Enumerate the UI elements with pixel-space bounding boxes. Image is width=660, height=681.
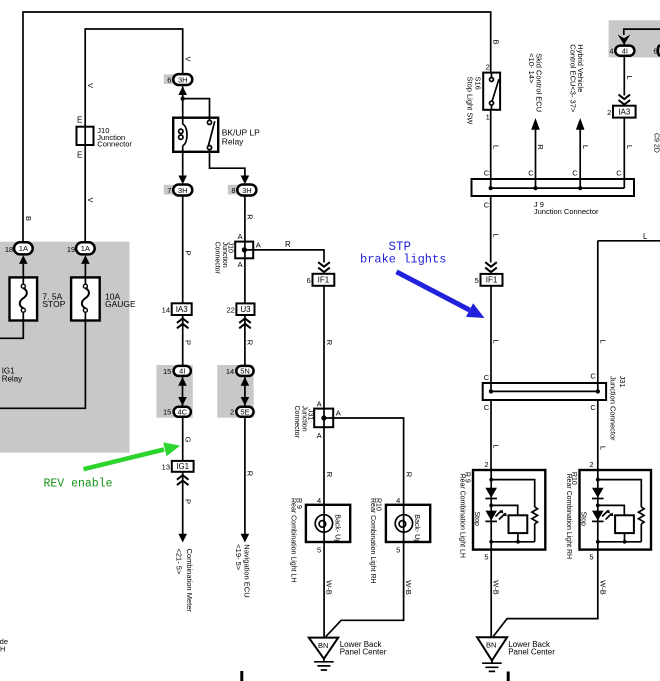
svg-text:19: 19 [67,245,75,254]
svg-text:Control ECU<3- 37>: Control ECU<3- 37> [569,44,578,113]
svg-text:GAUGE: GAUGE [105,299,136,309]
svg-text:R: R [325,472,334,478]
svg-text:R: R [246,471,255,477]
svg-text:4C: 4C [178,408,188,417]
svg-text:R: R [246,340,255,346]
svg-text:3H: 3H [178,75,188,84]
svg-text:J31: J31 [618,376,627,388]
svg-text:2: 2 [484,460,488,469]
svg-text:8: 8 [231,186,235,195]
svg-text:2: 2 [589,460,593,469]
svg-text:4: 4 [396,496,400,505]
svg-text:C: C [528,168,534,177]
svg-text:Relay: Relay [2,375,22,384]
svg-text:A: A [317,431,322,440]
svg-text:<21- 5>: <21- 5> [175,549,184,575]
svg-text:Rear Combination Light RH: Rear Combination Light RH [369,498,376,584]
svg-text:STOP: STOP [42,299,65,309]
svg-text:R: R [285,240,291,249]
svg-text:Connector: Connector [214,242,221,275]
svg-text:1A: 1A [19,244,28,253]
svg-text:Rear Combination Light LH: Rear Combination Light LH [290,498,297,582]
svg-text:P: P [184,499,193,504]
svg-text:4I: 4I [622,47,628,56]
svg-text:IA3: IA3 [176,305,189,314]
svg-text:L: L [492,444,501,448]
svg-text:REV enable: REV enable [44,478,113,491]
svg-text:A: A [238,232,243,241]
svg-text:W-B: W-B [599,580,608,594]
svg-text:<19- 5>: <19- 5> [234,544,243,570]
svg-text:L: L [492,339,501,343]
svg-text:IF1: IF1 [318,276,330,285]
svg-text:P: P [184,340,193,345]
svg-text:5: 5 [484,553,488,562]
svg-text:G: G [184,437,193,443]
svg-text:C: C [572,168,578,177]
svg-text:5: 5 [589,553,593,562]
svg-text:C: C [590,403,596,412]
svg-text:R: R [246,214,255,220]
svg-text:C: C [590,371,596,380]
svg-text:W-B: W-B [404,580,413,594]
svg-text:Junction: Junction [221,242,228,268]
svg-text:4: 4 [609,47,613,56]
svg-text:V: V [86,197,95,202]
svg-text:<10- 14>: <10- 14> [527,53,536,84]
svg-text:15: 15 [163,408,171,417]
svg-text:Stop: Stop [579,512,586,527]
svg-text:1: 1 [486,112,490,121]
svg-text:Relay: Relay [222,137,244,147]
svg-text:Junction Connector: Junction Connector [534,207,599,216]
svg-text:5E: 5E [240,408,249,417]
svg-text:L: L [643,232,648,241]
svg-text:Stop Light SW: Stop Light SW [466,77,475,126]
svg-text:L: L [599,339,608,343]
svg-text:Combination Meter: Combination Meter [185,549,194,613]
svg-text:1A: 1A [81,244,90,253]
svg-text:Connector: Connector [97,139,132,148]
svg-text:R: R [325,340,334,346]
svg-text:18: 18 [5,245,13,254]
svg-text:W-B: W-B [325,580,334,594]
svg-text:Panel Center: Panel Center [340,648,387,657]
svg-text:C9 2D: C9 2D [653,133,660,153]
svg-text:IG1: IG1 [176,462,189,471]
svg-text:P: P [184,250,193,255]
svg-text:A: A [336,409,341,418]
svg-text:L: L [492,233,501,237]
svg-text:E: E [77,115,82,124]
svg-text:3H: 3H [178,186,188,195]
svg-text:IA3: IA3 [618,108,631,117]
svg-text:15: 15 [163,367,171,376]
svg-text:Back- Up: Back- Up [413,514,420,543]
svg-text:A: A [238,260,243,269]
svg-text:BN: BN [318,641,328,650]
svg-text:5: 5 [396,545,400,554]
svg-text:L: L [625,75,634,79]
svg-text:Rear Combination Light LH: Rear Combination Light LH [458,474,465,558]
svg-text:5N: 5N [240,367,250,376]
svg-text:Junction Connector: Junction Connector [609,376,618,441]
svg-text:B: B [492,39,501,44]
svg-text:Stop: Stop [473,512,480,527]
svg-text:6: 6 [307,276,311,285]
svg-text:2: 2 [230,408,234,417]
svg-text:14: 14 [162,305,170,314]
svg-text:Panel Center: Panel Center [508,648,555,657]
svg-text:R: R [536,144,545,150]
svg-text:BN: BN [486,641,496,650]
svg-text:W-B: W-B [492,580,501,594]
svg-text:L: L [492,145,501,149]
svg-text:brake lights: brake lights [360,253,446,267]
svg-text:L: L [581,145,590,149]
svg-text:5: 5 [317,545,321,554]
svg-text:C: C [484,403,490,412]
svg-text:Rear Combination Light RH: Rear Combination Light RH [565,474,572,560]
svg-text:C: C [484,373,490,382]
svg-text:2: 2 [607,108,611,117]
svg-text:A: A [317,399,322,408]
svg-text:7: 7 [167,186,171,195]
svg-text:2: 2 [486,63,490,72]
svg-text:IF1: IF1 [486,276,498,285]
svg-text:U3: U3 [240,305,251,314]
svg-text:6: 6 [653,47,657,56]
svg-text:E: E [77,150,82,159]
svg-text:5: 5 [475,276,479,285]
svg-text:C: C [616,168,622,177]
svg-text:6: 6 [167,76,171,85]
svg-text:H: H [0,644,5,653]
svg-text:Connector: Connector [293,406,300,439]
svg-text:14: 14 [226,367,234,376]
svg-text:22: 22 [226,306,234,315]
svg-text:L: L [599,446,608,450]
svg-text:4I: 4I [179,367,185,376]
svg-text:C: C [484,168,490,177]
svg-text:Navigation ECU: Navigation ECU [243,544,252,597]
svg-text:3H: 3H [242,186,252,195]
svg-text:V: V [86,83,95,88]
svg-text:Back- Up: Back- Up [334,514,341,543]
svg-text:B: B [24,216,33,221]
svg-text:C: C [484,201,490,210]
svg-text:Junction: Junction [300,406,307,432]
svg-text:13: 13 [162,463,170,472]
svg-text:V: V [184,56,193,61]
svg-text:A: A [256,240,261,249]
svg-text:L: L [625,145,634,149]
svg-text:4: 4 [317,496,321,505]
svg-text:R: R [404,472,413,478]
